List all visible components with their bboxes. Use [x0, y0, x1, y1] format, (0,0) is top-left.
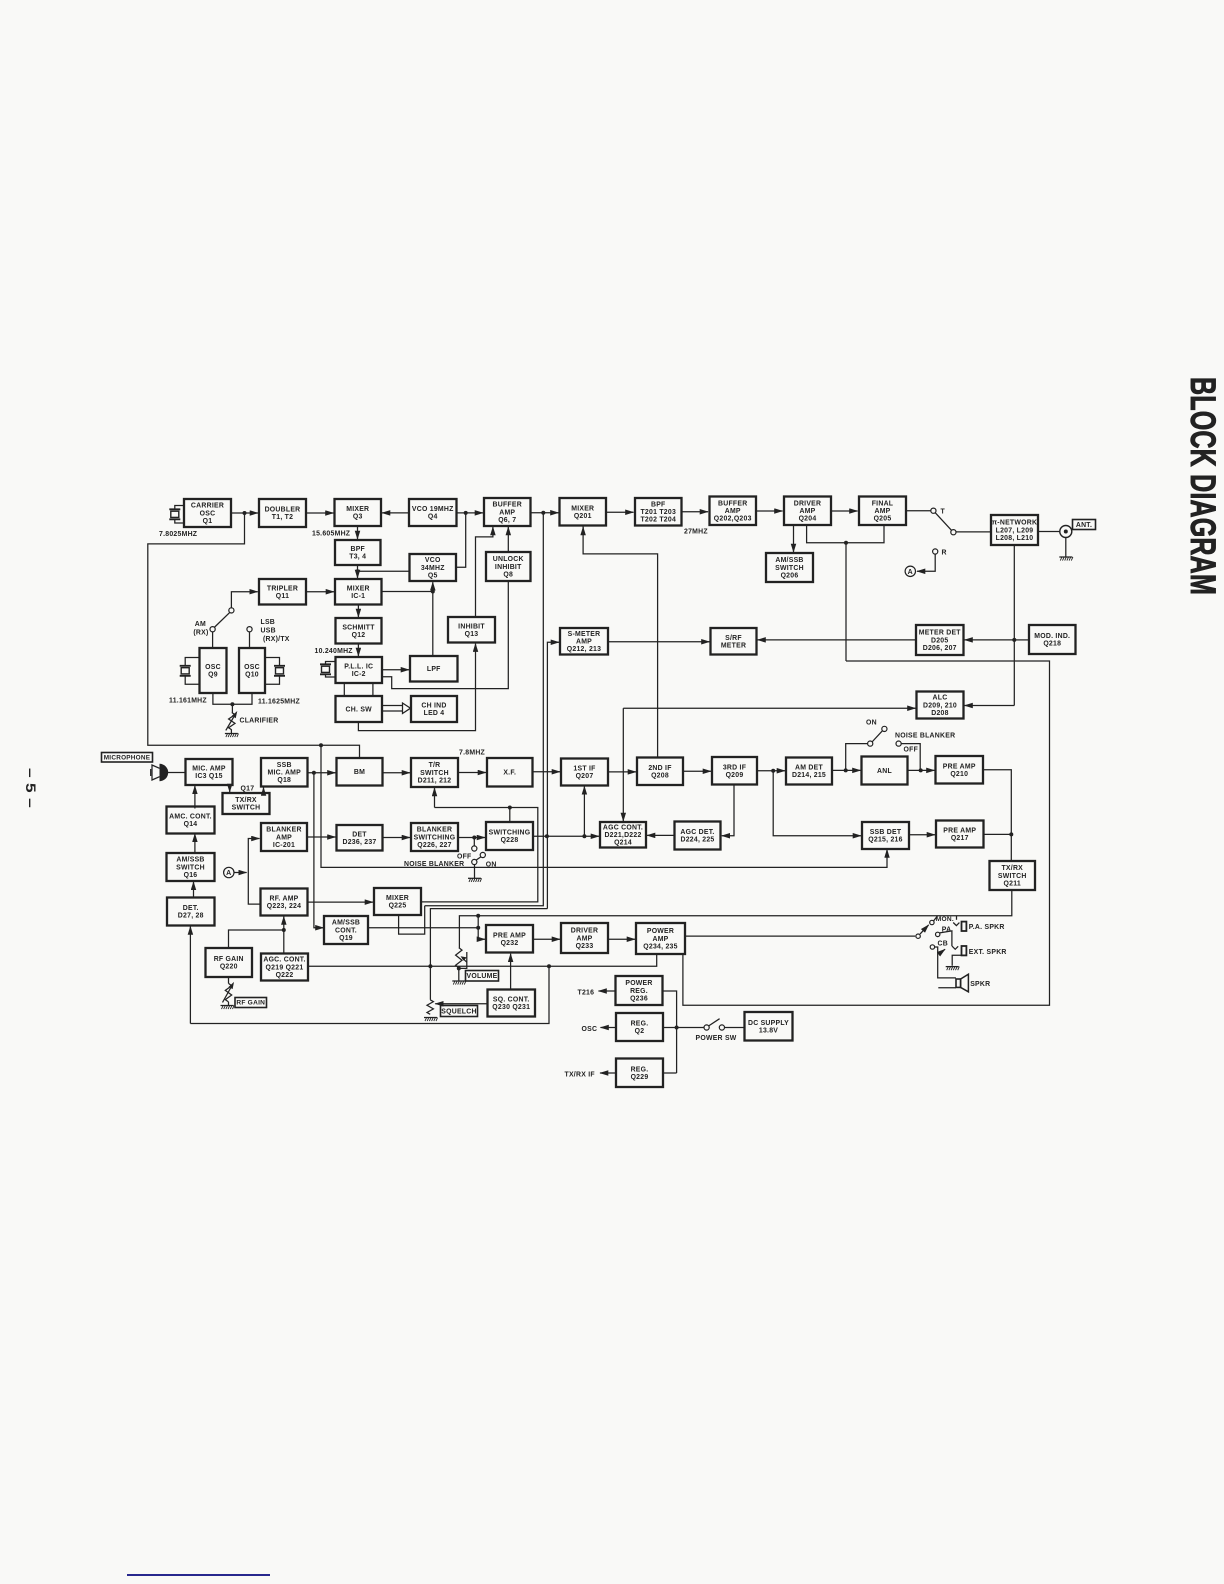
final-amp Q205 [859, 497, 906, 526]
svg-text:A: A [226, 870, 231, 877]
wire bus V2 to s-meter amp [547, 642, 559, 908]
wire pre amp Q217 to Q211 [984, 833, 1012, 835]
wire det D27 to Q16 [193, 882, 195, 898]
wire 3rd IF to AM det [757, 770, 785, 772]
amc-cont Q14 [167, 807, 215, 834]
wire T lever [935, 513, 952, 531]
s-rf-meter [711, 628, 757, 655]
label 7.8MHZ [459, 750, 486, 757]
label Q17 [241, 786, 255, 793]
wire rf gain Q220 to rf amp [229, 930, 284, 948]
svg-text:TX/RX IF: TX/RX IF [565, 1072, 595, 1079]
wire agc cont Q219 out [308, 965, 549, 967]
ext speaker jack [952, 946, 966, 955]
arrow T216 [599, 990, 616, 992]
wire XF to 1st IF [533, 771, 561, 773]
anl switch contacts [868, 726, 902, 746]
ch-sw [336, 696, 383, 722]
agc-cont Q219 Q221 Q222 [261, 954, 308, 981]
svg-text:(RX)/TX: (RX)/TX [263, 636, 290, 643]
wire sq cont to pre amp Q232 [510, 954, 512, 990]
wire LPF line to VCO34 bottom [432, 582, 434, 591]
label ANT. [1073, 520, 1096, 530]
wire PA link [940, 931, 952, 946]
wire agc det to agc cont [647, 834, 675, 836]
crystal 7.8025MHZ at Q1 [169, 506, 184, 524]
wire Q3 to BPF T3,4 [357, 526, 359, 539]
svg-text:T216: T216 [578, 990, 595, 997]
wire VCO34 to Q4 line [456, 513, 466, 567]
wire mic-amp line to AM/SSB cont Q19 [314, 773, 324, 928]
rf-gain Q220 [206, 948, 253, 977]
det D236 D237 [337, 825, 383, 851]
wire ANL bypass off [846, 744, 868, 771]
wire node A to rf amp [248, 873, 260, 905]
wire driver amp to power amp [608, 938, 635, 940]
wire 3rd IF to agc det [722, 785, 734, 836]
wire ANL to pre amp Q210 [908, 769, 935, 771]
wire to power switch [677, 1027, 705, 1029]
wire carrier to SSB det [321, 745, 887, 867]
switching Q228 [486, 822, 533, 850]
label 11.161MHZ [169, 698, 207, 705]
svg-text:OFF: OFF [457, 854, 472, 861]
label 11.1625MHZ [258, 699, 300, 706]
label CB [938, 941, 948, 948]
bpf T3 T4 [335, 540, 381, 565]
svg-text:OFF: OFF [904, 747, 919, 754]
wire IC-1 to schmitt [357, 605, 359, 618]
svg-text:PA: PA [942, 926, 952, 933]
R contact [933, 549, 938, 554]
wire LSB contact to osc Q10 [249, 632, 251, 649]
wire doubler to mixer Q3 [306, 512, 334, 514]
pre-amp Q232 [486, 925, 533, 953]
svg-text:X.F.: X.F. [503, 770, 516, 777]
wire to clarifier [231, 704, 233, 712]
label MON. [936, 916, 954, 923]
arrow OSC [601, 1027, 617, 1029]
wire s-meter amp to s/rf meter [608, 641, 710, 643]
wire supply to power amp [549, 955, 657, 967]
label RF GAIN [235, 998, 267, 1008]
label PA [942, 926, 952, 933]
svg-text:CLARIFIER: CLARIFIER [240, 718, 279, 725]
wire Q16 to AMC cont [194, 834, 196, 853]
wire rf amp to mixer Q225 [308, 901, 374, 903]
mic-amp IC3 Q15 [186, 759, 233, 785]
svg-text:T: T [941, 509, 946, 516]
power-amp Q234 Q235 [636, 923, 685, 954]
1st-if Q207 [561, 759, 608, 786]
wire sq cont to squelch pot [435, 1003, 487, 1005]
wire Q17 to ssb mic amp [263, 788, 265, 794]
wire Q8 to buffer amp [507, 527, 509, 552]
label 10.240MHZ [315, 648, 354, 655]
wire blanker amp to det D236 [307, 836, 336, 838]
wire BPF down [357, 565, 359, 571]
svg-text:Q17: Q17 [241, 786, 255, 793]
wire T/R switch to XF [458, 772, 486, 774]
svg-text:BPFT3, 4: BPFT3, 4 [349, 546, 366, 561]
svg-text:RF GAIN: RF GAIN [236, 1000, 265, 1007]
svg-text:R: R [942, 550, 947, 557]
wire tripler to IC-1 [306, 591, 334, 593]
svg-text:OSC: OSC [582, 1026, 598, 1033]
buffer-amp Q202 Q203 [710, 497, 757, 526]
wire blanker switching to switching Q228 [458, 837, 485, 839]
wire agc/alc feed to ALC [623, 707, 915, 709]
wire power switch to dc supply [724, 1027, 744, 1029]
3rd-if Q209 [712, 757, 757, 785]
svg-text:7.8MHZ: 7.8MHZ [459, 750, 486, 757]
ground squelch pot [424, 1018, 438, 1022]
wire mic to mic amp [168, 772, 186, 774]
wire meter det to s/rf meter [758, 639, 917, 641]
wire VCO Q4 to mixer Q3 [382, 512, 409, 514]
label P.A. SPKR [969, 924, 1005, 931]
agc-det D224 D225 [675, 822, 721, 850]
wire mixer Q201 to bpf T201 [606, 511, 634, 513]
sq-cont Q230 Q231 [488, 990, 536, 1017]
wire pa jack feed [956, 916, 958, 920]
squelch pot [427, 1000, 433, 1015]
svg-text:AM: AM [195, 621, 206, 628]
wire BPF to mixer IC-1 [357, 571, 359, 578]
crystal 10.240MHZ at PLL [320, 662, 336, 678]
wire AMC cont to mic amp [194, 786, 196, 809]
wire T/R feed bus V3 [422, 808, 538, 902]
power-reg Q236 [616, 976, 663, 1005]
wire driver amp to AM/SSB switch Q206 [793, 525, 795, 552]
wire agc line to 1st IF [583, 786, 585, 836]
svg-text:NOISE BLANKER: NOISE BLANKER [404, 861, 464, 868]
label 7.8025MHZ [159, 531, 198, 538]
wire buffer amp to mixer Q201 [531, 512, 559, 514]
crystal 11.1625MHZ at Q10 [265, 658, 285, 685]
svg-text:LPF: LPF [427, 666, 441, 673]
wire spkr lower terminal [938, 987, 956, 989]
wire ssb mic amp to BM [308, 772, 336, 774]
anl [862, 757, 908, 785]
svg-text:P.A. SPKR: P.A. SPKR [969, 924, 1005, 931]
mod-ind Q218 [1029, 625, 1076, 654]
label TX/RX IF [565, 1072, 595, 1079]
ch-sw to ch-ind hollow arrow [382, 703, 411, 714]
bpf T201-T204 [635, 498, 682, 526]
svg-text:CB: CB [938, 941, 948, 948]
svg-text:CH. SW: CH. SW [346, 706, 373, 713]
svg-text:27MHZ: 27MHZ [684, 529, 708, 536]
label SQUELCH [441, 1006, 478, 1017]
clarifier pot [226, 711, 238, 730]
wire CB to spkr [935, 947, 956, 978]
node A left [224, 867, 234, 877]
label OFF upper [904, 747, 919, 754]
svg-text:LSB: LSB [261, 619, 276, 626]
label NOISE BLANKER lower [404, 861, 464, 868]
wire LPF line down [432, 592, 434, 657]
wire switching Q228 top stub [509, 808, 511, 823]
label EXT. SPKR [969, 949, 1007, 956]
wire pi-network to antenna [1038, 531, 1060, 533]
pre-amp Q210 [936, 756, 984, 784]
svg-text:NOISE BLANKER: NOISE BLANKER [895, 733, 955, 740]
wire schmitt to PLL [357, 644, 359, 657]
tx-rx-switch Q17 [223, 793, 270, 814]
label ON lower [486, 861, 497, 868]
wire bpf T201 to buffer Q202 [682, 511, 709, 513]
wire volume pot to ground [458, 968, 460, 981]
ground volume pot [452, 981, 466, 985]
unlock-inhibit Q8 [486, 552, 531, 581]
wire sample to mod ind [1014, 639, 1029, 641]
speaker switch contacts [916, 920, 940, 949]
vco-34mhz Q5 [410, 554, 457, 581]
label AM (RX) [193, 621, 208, 637]
svg-text:SPKR: SPKR [970, 981, 990, 988]
footer blue rule [127, 1574, 270, 1576]
wire bus bottom [190, 966, 549, 1023]
wire ch-sw to inhibit Q13 [358, 644, 475, 731]
speaker SPKR [956, 974, 968, 992]
wire speaker switch lever [920, 925, 929, 934]
wire bus V2 to squelch pot [430, 909, 547, 1000]
wire modulation bus [683, 661, 1050, 1005]
osc select switch contacts [210, 608, 252, 632]
svg-text:11.1625MHZ: 11.1625MHZ [258, 699, 300, 706]
label OSC [582, 1026, 598, 1033]
ground noise blanker switch [468, 878, 482, 882]
label OFF lower [457, 854, 472, 861]
svg-text:BM: BM [354, 769, 365, 776]
noise blanker switch contacts [472, 846, 486, 865]
wire power switch lever [709, 1019, 720, 1026]
wire ssb det to pre amp Q217 [909, 834, 935, 836]
svg-text:(RX): (RX) [193, 630, 208, 637]
wire inhibit Q13 to buffer amp [476, 527, 493, 617]
label CLARIFIER [240, 718, 279, 725]
wire driver/final mod feed [807, 525, 884, 543]
wire 3rd IF line to ssb det [773, 771, 861, 836]
wire antenna ground [1065, 538, 1067, 557]
mixer Q201 [560, 498, 607, 526]
wire Q19 to pre amp Q232 [368, 927, 478, 929]
bm [337, 758, 383, 786]
wire AM contact to osc Q9 [212, 632, 214, 649]
svg-text:AGC DET.D224, 225: AGC DET.D224, 225 [680, 829, 714, 844]
label SPKR [970, 981, 990, 988]
svg-text:MIXERQ201: MIXERQ201 [571, 505, 594, 520]
wire osc bottoms [213, 693, 252, 704]
wire power amp to speaker switch [685, 935, 915, 937]
wire noise blanker ground stub [474, 865, 476, 878]
svg-text:2ND IFQ208: 2ND IFQ208 [648, 765, 671, 780]
wire 2nd IF to mixer Q201 [583, 527, 658, 758]
am-ssb-switch Q16 [167, 853, 215, 881]
am-det D214 D215 [786, 758, 832, 785]
ch-ind LED4 [411, 696, 457, 722]
svg-text:11.161MHZ: 11.161MHZ [169, 698, 207, 705]
wire PLL to LPF [382, 669, 409, 671]
svg-text:10.240MHZ: 10.240MHZ [315, 648, 354, 655]
wire volume wiper tail [459, 958, 467, 969]
t-r-switch D211 D212 [411, 758, 458, 787]
mixer IC-1 [335, 579, 382, 605]
svg-text:ANT.: ANT. [1076, 522, 1092, 529]
svg-text:15.605MHZ: 15.605MHZ [312, 531, 351, 538]
wire node A to blanker amp [248, 839, 259, 873]
reg Q2 [616, 1013, 663, 1041]
dc-supply 13.8V [745, 1012, 793, 1041]
alc D209 D210 D208 [917, 692, 964, 719]
wire agc/alc feed down [622, 708, 624, 821]
arrow into T/R switch bottom [434, 788, 436, 808]
svg-text:CH INDLED 4: CH INDLED 4 [421, 703, 446, 718]
wire pre amp Q210 to Q211 [983, 770, 1011, 861]
mixer Q225 [374, 888, 421, 915]
label LSB USB RX/TX [261, 619, 290, 643]
volume pot [456, 948, 467, 968]
wire into pre amp Q232 [478, 928, 485, 940]
label ON upper [866, 720, 877, 727]
svg-text:MON.: MON. [936, 916, 954, 923]
ground rf gain pot [221, 1006, 235, 1010]
ssb-mic-amp Q18 [261, 758, 308, 787]
wire det D236 to blanker switching [383, 837, 411, 839]
svg-text:MICROPHONE: MICROPHONE [104, 754, 151, 761]
page number -5- [23, 768, 39, 808]
wire node A arrow [234, 872, 246, 874]
tx-rx-switch Q211 [990, 861, 1036, 890]
svg-text:3RD IFQ209: 3RD IFQ209 [723, 764, 746, 779]
pi-network L207-L210 [991, 515, 1038, 545]
svg-text:π-NETWORKL207, L209L208, L210: π-NETWORKL207, L209L208, L210 [992, 520, 1037, 542]
schmitt Q12 [336, 618, 382, 644]
wire pll to ch-sw stub left [343, 683, 345, 696]
wire PLL to unlock inhibit Q8 [382, 581, 508, 689]
blanker-amp IC-201 [261, 823, 307, 851]
pa speaker jack [953, 922, 966, 931]
T contact [931, 508, 936, 513]
det D27 D28 [167, 898, 215, 926]
junction dots [230, 511, 1016, 1030]
vco-19mhz Q4 [409, 499, 457, 526]
ground clarifier [225, 734, 239, 738]
wire bus bottom to det D27 [189, 927, 191, 1024]
wire VCO Q4 to buffer amp [457, 512, 484, 514]
wire power reg join [663, 991, 677, 1073]
wire common to pi-network [956, 531, 991, 533]
wire osc switch common to tripler [231, 592, 257, 608]
agc-cont D221 D222 Q214 [600, 822, 646, 848]
pll-ic IC-2 [336, 657, 383, 683]
driver-amp Q233 [561, 923, 608, 953]
reg Q229 [616, 1059, 663, 1088]
am-ssb-switch Q206 [766, 553, 813, 582]
svg-text:MIC. AMPIC3 Q15: MIC. AMPIC3 Q15 [192, 766, 226, 781]
wire BPF to VCO34 [358, 570, 410, 572]
wire ANL bypass on [901, 744, 920, 771]
antenna connector [1060, 526, 1072, 538]
wire final amp to T contact [906, 510, 931, 512]
svg-text:VOLUME: VOLUME [467, 973, 498, 980]
xf [487, 758, 533, 787]
svg-text:POWER SW: POWER SW [696, 1035, 737, 1042]
carrier-osc Q1 [184, 499, 231, 527]
label R [942, 550, 947, 557]
osc Q9 [200, 648, 227, 693]
microphone symbol [151, 764, 169, 781]
wire sample to meter det [965, 639, 1015, 641]
wire buffer Q202 to driver Q204 [756, 510, 783, 512]
title BLOCK DIAGRAM [1183, 377, 1222, 595]
svg-text:7.8025MHZ: 7.8025MHZ [159, 531, 198, 538]
wire reg Q2 join [663, 1027, 677, 1029]
wire 1st IF to 2nd IF [608, 771, 636, 773]
wire Q1 to doubler [231, 512, 258, 514]
svg-text:SQ. CONT.Q230 Q231: SQ. CONT.Q230 Q231 [492, 997, 530, 1012]
label T216 [578, 990, 595, 997]
node A right [905, 566, 915, 576]
wire clarifier ground [230, 730, 232, 733]
wire to rf amp bottom [283, 917, 285, 931]
wire osc switch lever [214, 612, 230, 627]
wire reg Q229 join [663, 1072, 677, 1074]
label MICROPHONE [102, 753, 153, 763]
antenna switch common [951, 530, 956, 535]
svg-text:TX/RXSWITCH: TX/RXSWITCH [232, 797, 261, 812]
osc Q10 [239, 648, 265, 693]
wire Q211 to volume [459, 891, 1011, 948]
wire audio tie [477, 916, 479, 928]
svg-text:USB: USB [261, 628, 276, 635]
wire IC-1 right to LPF line [382, 591, 433, 593]
inhibit Q13 [448, 617, 495, 643]
label POWER SW [696, 1035, 737, 1042]
blanker-switching Q226 Q227 [411, 823, 458, 851]
rf gain pot [223, 982, 235, 1003]
wire mic amp to Q17 [229, 786, 231, 792]
svg-text:SQUELCH: SQUELCH [441, 1008, 476, 1015]
rf-amp Q223 Q224 [261, 889, 308, 916]
svg-text:REG.Q229: REG.Q229 [631, 1066, 649, 1081]
driver-amp Q204 [784, 497, 831, 526]
s-meter-amp Q212 Q213 [560, 628, 608, 655]
wire CB arrow to ext jack [941, 949, 945, 952]
svg-text:SSB DETQ215, 216: SSB DETQ215, 216 [868, 829, 902, 844]
pre-amp Q217 [936, 821, 984, 848]
2nd-if Q208 [637, 758, 683, 786]
wire BM to T/R switch [383, 772, 411, 774]
label T [941, 509, 946, 516]
wire pll to ch-sw stub right [372, 683, 374, 696]
tripler Q11 [259, 579, 306, 605]
svg-text:ON: ON [486, 861, 497, 868]
wire noise blanker switch stub [473, 838, 475, 847]
wire 2nd IF to 3rd IF [683, 770, 711, 772]
label 15.605MHZ [312, 531, 351, 538]
svg-text:RF. AMPQ223, 224: RF. AMPQ223, 224 [267, 896, 301, 911]
wire driver Q204 to final Q205 [831, 510, 858, 512]
svg-text:BLANKERSWITCHINGQ226, 227: BLANKERSWITCHINGQ226, 227 [414, 827, 456, 849]
wire MON branch [934, 916, 938, 921]
svg-text:ON: ON [866, 720, 877, 727]
ground antenna [1059, 557, 1073, 561]
lpf [410, 656, 458, 682]
wire to agc cont Q219 top [283, 930, 285, 954]
wire switching Q228 to agc cont [533, 835, 599, 837]
